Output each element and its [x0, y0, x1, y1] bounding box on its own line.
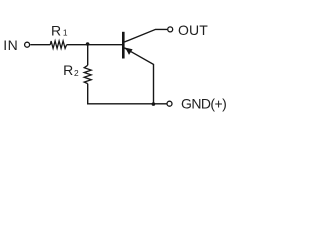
svg-text:OUT: OUT: [178, 22, 208, 38]
svg-text:2: 2: [74, 68, 79, 78]
svg-text:IN: IN: [3, 37, 18, 53]
svg-text:R: R: [63, 62, 73, 78]
svg-text:GND(+): GND(+): [181, 96, 227, 112]
svg-text:1: 1: [63, 28, 68, 38]
svg-text:R: R: [51, 23, 61, 39]
